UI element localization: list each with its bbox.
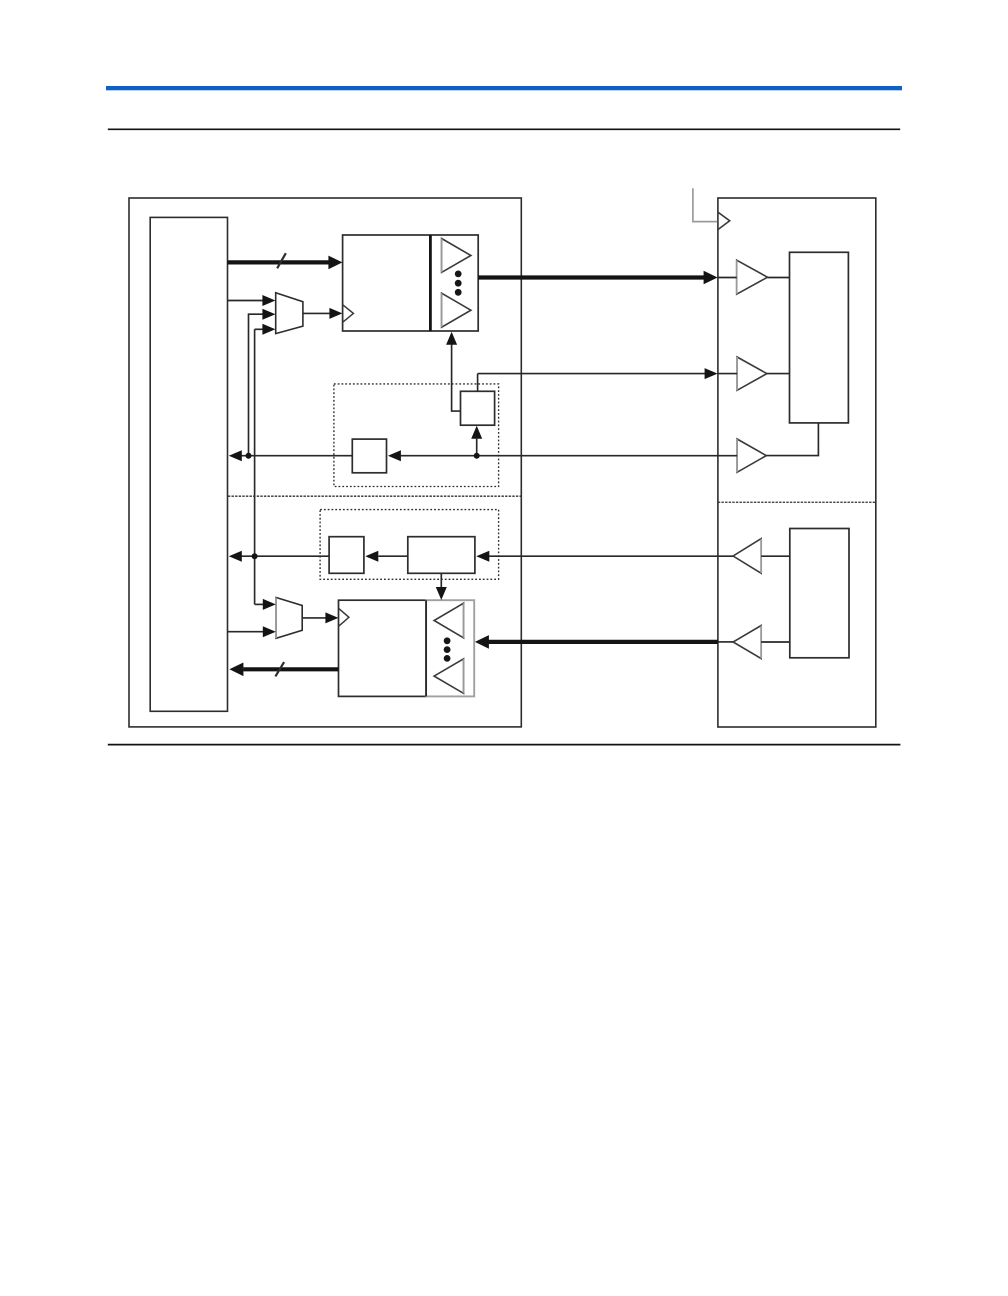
bottom dotted synchronizer box	[320, 510, 499, 580]
top dotted synchronizer box	[334, 384, 499, 487]
deserializer box (RX) left part	[339, 600, 427, 696]
TX driver triangle 2	[442, 293, 471, 327]
wire top mux output to serializer clock	[303, 312, 330, 314]
wire TX serial output thick	[478, 275, 705, 279]
wire load enable to output buffer 2	[478, 373, 705, 375]
wire down into deserializer	[440, 573, 442, 587]
gray clock entry L wire	[693, 188, 717, 221]
refclk buffer 3	[737, 439, 766, 472]
RX input triangle 2	[434, 659, 464, 694]
wire refclk buffer 3 to PLL	[766, 423, 818, 455]
deserializer gray right sub-box	[426, 600, 474, 696]
wire RX parallel data thick bus	[243, 667, 338, 671]
top mux trapezoid	[276, 293, 303, 334]
wire divider square to serializer load clock	[452, 344, 461, 411]
serializer clock chevron	[343, 305, 354, 322]
bus width slash (RX)	[275, 662, 284, 676]
core logic array tall rectangle	[150, 217, 227, 711]
bottom wide register rect	[408, 537, 475, 574]
wire input buffer 1 to pad rect	[761, 555, 790, 557]
wire outclock net into core	[229, 450, 242, 461]
header blue rule	[106, 86, 902, 90]
wire RX clock net from input buffer 1	[489, 555, 733, 557]
input pad rectangle (right box bottom)	[790, 529, 849, 658]
footer thin rule	[108, 744, 901, 746]
output pin buffer 1	[737, 260, 768, 294]
junction dot C	[252, 553, 258, 559]
wire to top mux input 3 / bottom mux input 1 vertical	[254, 329, 256, 604]
left device outer box	[129, 198, 521, 727]
deserializer ellipsis dots	[444, 637, 451, 644]
wire to top mux input 2	[249, 314, 264, 456]
deserializer divider	[425, 600, 427, 696]
wire output buffer 1 to pin rect	[768, 277, 790, 279]
serializer thick divider	[429, 235, 432, 331]
header thin rule	[108, 128, 900, 130]
clock chevron on right box edge	[718, 212, 730, 230]
serializer ellipsis dots	[455, 271, 462, 278]
wire RX clock into core	[241, 555, 329, 557]
wire between bottom registers	[378, 555, 407, 557]
bottom small register square	[329, 537, 364, 574]
output pin buffer 2	[737, 357, 767, 390]
dotted channel separator (right box)	[718, 501, 876, 503]
wire to bottom mux input 2	[228, 631, 264, 633]
TX driver triangle 1	[442, 239, 471, 273]
wire outclock net into register square	[388, 450, 401, 461]
wire TX parallel data thick bus	[228, 260, 331, 264]
wire up into divider square	[476, 439, 478, 456]
input pin buffer 1	[733, 539, 761, 574]
bus width slash (TX)	[277, 253, 286, 268]
PLL rectangle (right box top)	[790, 252, 849, 423]
wire output buffer 2 to pin rect	[767, 373, 790, 375]
RX input triangle 1	[434, 603, 464, 638]
wire bottom mux output to deserializer clock	[302, 617, 326, 619]
dotted channel separator (left box)	[228, 495, 521, 497]
clock divider square	[461, 391, 495, 425]
bottom mux trapezoid	[276, 598, 302, 639]
input pin buffer 2	[733, 626, 761, 659]
deserializer clock chevron	[339, 608, 349, 626]
wire box edge to output buffer 1	[718, 277, 737, 279]
wire to top mux input 1	[228, 300, 264, 302]
wire RX serial input thick	[718, 641, 733, 643]
junction dot A	[246, 453, 252, 459]
serializer box (TX)	[343, 235, 479, 331]
top small register square	[352, 439, 386, 473]
right I/O outer box	[718, 198, 876, 727]
junction dot B	[474, 453, 480, 459]
wire input buffer 2 to pad rect	[761, 641, 790, 643]
